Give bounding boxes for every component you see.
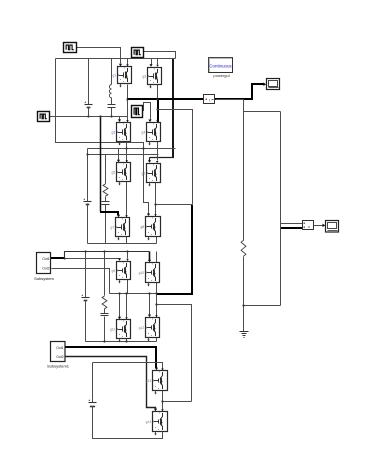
- load resistor: [241, 240, 246, 256]
- wire P2 gate trunk: [172, 59, 174, 158]
- wire leg bridge4: [161, 391, 163, 412]
- wire B1 bottom: [88, 108, 90, 117]
- igbt Q13: [146, 371, 168, 395]
- wire Q11 gate: [118, 294, 121, 320]
- wire right rail: [280, 112, 282, 306]
- wire VM plus: [281, 223, 303, 225]
- wire load bottom link: [244, 305, 281, 307]
- wire subsystem2 out2: [66, 357, 158, 412]
- pulse generator P2: [132, 48, 144, 58]
- igbt Q5: [112, 163, 131, 186]
- wire load top link: [244, 111, 281, 113]
- svg-text:v: v: [308, 224, 310, 229]
- wire Q6 gate feed: [148, 158, 174, 163]
- pulse generator P1: [64, 43, 77, 53]
- svg-text:Subsystem: Subsystem: [34, 276, 54, 281]
- wire Q3 gate: [118, 117, 121, 123]
- wire gate drop Q8 feed: [144, 149, 151, 217]
- wire VM to scope2: [314, 224, 326, 227]
- dc source B1: [85, 102, 93, 117]
- wire Q1 collector: [126, 59, 128, 67]
- wire bridge3 mid bus: [110, 293, 158, 295]
- svg-text:g14: g14: [146, 420, 152, 424]
- wire load bottom: [243, 257, 245, 332]
- svg-text:g7: g7: [111, 225, 115, 229]
- wire Q9 emitter: [127, 280, 129, 294]
- wire RC3 top: [104, 252, 106, 296]
- svg-text:g9: g9: [112, 269, 116, 273]
- igbt Q7: [111, 218, 130, 241]
- wire bridge1 output right: [158, 110, 193, 205]
- wire Q11 emitter: [126, 339, 128, 342]
- svg-text:g4: g4: [142, 130, 146, 134]
- svg-text:g11: g11: [110, 327, 115, 331]
- wire Q3 emitter to Q5 collector: [126, 142, 128, 163]
- wire LC1 top: [111, 59, 113, 85]
- wire Q10 gate: [148, 252, 151, 263]
- wire LC1 bottom: [111, 108, 113, 117]
- wire bus bridge2 top: [88, 154, 159, 156]
- wire P4 to Q4 gate: [143, 103, 152, 123]
- wire bridge1 left box: [56, 59, 144, 149]
- wire thick gate trunk left: [100, 117, 120, 218]
- subsystem 1 (gate pulse source): [34, 253, 54, 282]
- pulse generator P4: [132, 106, 143, 118]
- svg-text:powergui: powergui: [213, 73, 229, 78]
- wire leg A2: [125, 182, 127, 218]
- wire RC3 bottom: [104, 317, 106, 342]
- igbt Q9: [112, 262, 131, 284]
- wire subsystem1 out2: [52, 269, 110, 294]
- svg-text:Out2: Out2: [56, 355, 63, 359]
- wire bridge3 bottom bus: [86, 341, 157, 343]
- wire Q2 collector: [156, 59, 158, 67]
- wire top DC bus bridge1: [56, 58, 176, 60]
- wire Q12 emitter: [156, 337, 158, 342]
- wire leg B3: [155, 282, 157, 318]
- wire CM to load: [216, 100, 244, 241]
- svg-text:g10: g10: [139, 271, 145, 275]
- voltage measurement block: [303, 221, 314, 230]
- wire Q11 collector: [125, 294, 127, 320]
- igbt Q12: [139, 318, 160, 342]
- wire P1 to Q1 gate: [77, 48, 123, 67]
- igbt Q6: [142, 164, 161, 187]
- wire B2 top: [87, 149, 89, 202]
- wire CM to scope1: [215, 83, 266, 99]
- wire leg B1 upper: [157, 85, 159, 100]
- pulse generator P3: [38, 112, 50, 122]
- svg-text:g5: g5: [112, 170, 116, 174]
- wire leg B2: [154, 183, 156, 217]
- svg-text:i: i: [209, 98, 210, 103]
- svg-text:g2: g2: [143, 74, 147, 78]
- RC branch bridge2: [102, 184, 110, 205]
- wire RC2 bottom: [105, 205, 107, 244]
- scope 1: [267, 79, 280, 90]
- wire Q9 collector: [126, 252, 128, 261]
- svg-text:Out2: Out2: [42, 266, 49, 270]
- igbt Q1: [113, 67, 132, 88]
- wire Q10 collector: [156, 252, 158, 263]
- wire P3 gate bus: [49, 116, 128, 118]
- wire subsystem2 out1: [65, 347, 158, 370]
- wire subsystem1 upper bus: [65, 252, 150, 259]
- igbt Q14: [146, 412, 168, 436]
- wire bridge2 bottom bus: [88, 243, 157, 245]
- svg-text:Subsystem1: Subsystem1: [47, 363, 70, 368]
- svg-text:Out1: Out1: [42, 257, 49, 261]
- igbt Q4: [142, 123, 161, 146]
- igbt Q2: [143, 68, 162, 89]
- wire Q12 gate: [148, 294, 151, 318]
- wire to current measurement: [127, 98, 204, 100]
- wire Q8 emitter: [156, 237, 158, 244]
- svg-text:Out1: Out1: [56, 346, 63, 350]
- wire leg A1: [126, 85, 128, 123]
- dc source B4: [89, 400, 97, 439]
- wire B3 bottom: [85, 301, 87, 342]
- wire bridge4 output: [163, 401, 192, 403]
- wire bridge4 top: [93, 363, 164, 371]
- wire B2 bottom: [87, 204, 89, 244]
- wire bridge3 output tap: [157, 305, 192, 402]
- wire Q7 emitter: [126, 237, 128, 244]
- wire subsystem1 out1: [51, 258, 121, 261]
- wire Q2 gate: [149, 59, 152, 67]
- scope 2: [326, 221, 339, 233]
- igbt Q11: [110, 320, 131, 343]
- wire B4 bottom: [93, 407, 163, 439]
- ground: [240, 332, 249, 338]
- dc source B2: [84, 199, 92, 244]
- dc source B3: [82, 295, 90, 342]
- wire Q6 collector: [156, 155, 158, 164]
- subsystem 2 (gate pulse source): [47, 342, 70, 369]
- wire chain bridge2: [156, 204, 193, 206]
- wire thick chain right: [157, 205, 192, 294]
- wire B1 top: [88, 59, 90, 105]
- LC branch bridge1: [108, 85, 116, 108]
- wire bus bridge2 A: [88, 148, 176, 150]
- wire leg B1 thick: [156, 99, 159, 122]
- svg-text:g3: g3: [112, 130, 116, 134]
- current measurement block: [204, 95, 215, 104]
- powergui block: [209, 58, 233, 79]
- wire Q5 gate: [117, 149, 120, 163]
- igbt Q8: [141, 217, 161, 241]
- igbt Q3: [112, 123, 131, 146]
- wire RC2 top: [105, 155, 107, 184]
- wire B3 top: [85, 252, 87, 298]
- wire B4 top: [92, 363, 94, 403]
- RC branch bridge3: [101, 296, 109, 316]
- svg-text:g12: g12: [139, 326, 145, 330]
- wire P2 output: [143, 52, 176, 59]
- wire Q4 emitter: [157, 142, 159, 155]
- igbt Q10: [139, 263, 160, 287]
- svg-text:g1: g1: [113, 73, 117, 77]
- svg-text:g13: g13: [146, 379, 152, 383]
- svg-text:g6: g6: [142, 171, 146, 175]
- wire VM minus: [281, 227, 302, 229]
- svg-text:g8: g8: [141, 225, 145, 229]
- svg-text:Continuous: Continuous: [209, 64, 232, 69]
